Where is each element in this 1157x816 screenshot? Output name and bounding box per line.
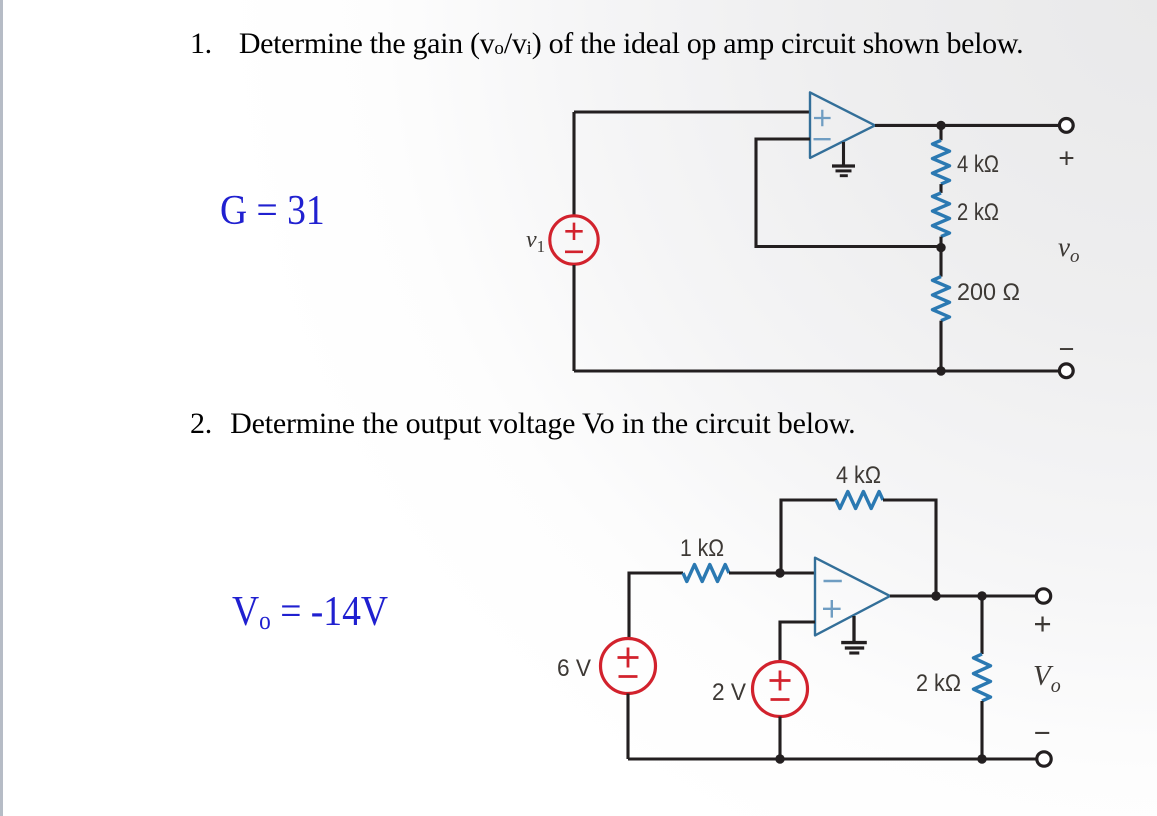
resistor R6 2 kOhm load xyxy=(974,654,991,701)
wire: feedback top-right and down to output xyxy=(883,500,936,596)
svg-text:200 Ω: 200 Ω xyxy=(957,279,1020,306)
resistor R4 4 kOhm feedback xyxy=(836,492,883,509)
resistor R3 200 Ohm xyxy=(933,277,950,321)
answer Vo = -14V xyxy=(232,588,388,636)
terminal: Vo - (bottom) xyxy=(1037,752,1051,766)
left page edge strip xyxy=(0,0,3,816)
wire: 2k top stub xyxy=(980,596,983,654)
node: 2k top junction xyxy=(977,591,986,600)
terminal: Vo + (top) xyxy=(1036,589,1050,603)
svg-text:2 kΩ: 2 kΩ xyxy=(957,199,999,226)
svg-text:v1: v1 xyxy=(526,227,545,256)
question 1 text xyxy=(190,27,1023,61)
node: feedback junction on output xyxy=(931,591,940,600)
node: 2k bottom rail junction xyxy=(977,754,986,763)
resistor R5 1 kOhm xyxy=(683,565,729,582)
svg-text:−: − xyxy=(1059,334,1075,364)
voltage source 6V xyxy=(601,639,656,694)
svg-text:+: + xyxy=(1034,606,1052,641)
wire: 1k to op-amp inverting input xyxy=(729,571,815,574)
resistor R1 4 kOhm xyxy=(933,140,950,184)
wire: op-amp output to right terminal xyxy=(890,594,1036,597)
wire: node A down to 200 ohm xyxy=(939,248,942,277)
svg-text:4 kΩ: 4 kΩ xyxy=(957,151,999,178)
wire: 6V top to 1k xyxy=(629,573,683,638)
wire: 2k down to node A xyxy=(939,237,942,247)
resistor R2 2 kOhm xyxy=(933,193,950,237)
wire: left vertical below source v1 xyxy=(572,265,575,371)
wire: inverting input feedback loop xyxy=(756,139,941,247)
wire: 2V bottom to rail xyxy=(778,717,781,760)
wire: stub node to 4k xyxy=(939,125,942,140)
wire: feedback top-left xyxy=(781,500,837,573)
wire: top rail from v1 to op-amp + input xyxy=(574,110,810,113)
node: bottom rail junction xyxy=(936,366,945,375)
node: output node top of 4k xyxy=(936,121,945,130)
wire: 6V bottom to rail xyxy=(626,694,629,760)
node A: junction 2k/200 and feedback xyxy=(936,243,945,252)
svg-text:−: − xyxy=(1034,718,1051,750)
ground (op-amp 2 reference) xyxy=(841,616,867,653)
op-amp U2 xyxy=(815,558,890,636)
wire: left vertical above source v1 xyxy=(572,112,575,215)
wire: bottom rail of circuit 1 xyxy=(574,369,1059,372)
svg-text:1 kΩ: 1 kΩ xyxy=(680,535,724,562)
voltage source v1 xyxy=(550,216,598,264)
wire: 200 ohm to bottom rail xyxy=(939,321,942,371)
wire: op-amp output to top-right terminal xyxy=(875,124,1060,127)
terminal: output + (top right) xyxy=(1059,119,1073,133)
answer G = 31 xyxy=(220,187,325,235)
svg-text:4 kΩ: 4 kΩ xyxy=(836,462,881,489)
node: 2V bottom rail junction xyxy=(775,754,784,763)
question 2 text xyxy=(190,407,855,441)
wire: bottom rail of circuit 2 xyxy=(628,757,1037,760)
svg-text:6 V: 6 V xyxy=(557,655,591,682)
svg-text:2 kΩ: 2 kΩ xyxy=(916,670,961,697)
node: inverting input node xyxy=(775,568,784,577)
ground (op-amp 1 reference) xyxy=(832,142,855,176)
wire: + input from 2V source xyxy=(780,622,815,661)
wire: 2k bottom to rail xyxy=(980,701,983,759)
wire: between 4k and 2k xyxy=(939,184,942,193)
terminal: output - (bottom right) xyxy=(1059,364,1073,378)
svg-text:+: + xyxy=(1058,142,1074,173)
svg-text:2 V: 2 V xyxy=(712,679,746,706)
voltage source 2V xyxy=(753,662,808,717)
svg-text:Vo: Vo xyxy=(1033,660,1061,697)
op-amp U1 xyxy=(810,92,875,157)
svg-text:vo: vo xyxy=(1058,232,1079,267)
